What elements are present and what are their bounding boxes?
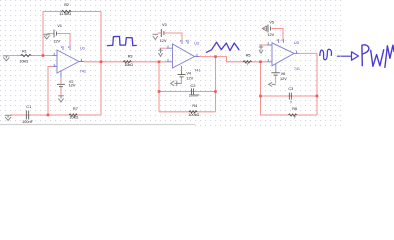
resistor R6 zigzag [288, 114, 296, 116]
svg-text:10kΩ: 10kΩ [19, 59, 28, 63]
wire vertical x101 output feedback [100, 12, 102, 116]
wire U1 output to U2 input [84, 61, 167, 63]
svg-text:R6: R6 [292, 107, 297, 111]
wire R4 branch [159, 111, 216, 113]
node C2 left junction [158, 90, 161, 93]
svg-text:C1: C1 [26, 105, 31, 109]
resistor R4 zigzag [189, 111, 197, 113]
pin tick U1 top pins [61, 46, 63, 48]
pin tick U1 out [81, 59, 83, 62]
wire U1 power pin to V2 [60, 77, 62, 84]
svg-text:11.5kΩ: 11.5kΩ [59, 12, 71, 16]
svg-text:?: ? [290, 101, 292, 105]
svg-text:12V: 12V [186, 76, 193, 80]
wire U1 inverting input down to rail [48, 67, 53, 116]
wire R1 to U1 noninverting input [10, 55, 53, 57]
svg-text:U1: U1 [80, 46, 86, 51]
annotation square wave [108, 36, 137, 45]
battery V2 [57, 84, 65, 86]
svg-text:10kΩ: 10kΩ [124, 63, 133, 67]
ground at U2 + input [158, 48, 162, 56]
node U2 inverting input junction [158, 61, 161, 64]
ground at V3 [153, 34, 159, 39]
pin tick U2 top pins [180, 40, 182, 42]
wire U3 noninverting gnd [259, 44, 267, 46]
ground at U3 + input [259, 45, 263, 53]
grid dots [0, 0, 344, 124]
pin tick U1 in+ [53, 53, 55, 55]
pin tick U3 in- [267, 59, 269, 62]
node C2 right junction [214, 90, 217, 93]
op-amp U1 741 [53, 46, 85, 78]
ground at R1 left [3, 56, 10, 61]
wire V3 to U2 power [164, 33, 182, 40]
battery V3 [161, 29, 164, 37]
svg-text:V6: V6 [281, 72, 286, 76]
op-amp labels [80, 40, 300, 74]
resistor R1 zigzag [21, 54, 32, 56]
resistor R3 zigzag [123, 61, 131, 63]
svg-text:12V: 12V [160, 39, 167, 43]
pin tick U1 in- [53, 64, 55, 66]
op-amp U3 741 [267, 39, 299, 73]
wire U2 output to R5 to U3 input [200, 57, 268, 62]
wire V5 gnd stub [263, 28, 267, 30]
wire U2 noninverting gnd [160, 47, 167, 49]
ground at C1 left [5, 115, 12, 120]
svg-text:R5: R5 [246, 54, 251, 58]
wire C2 branch [159, 91, 216, 93]
node C3 right junction [316, 95, 319, 98]
svg-text:741: 741 [194, 69, 200, 73]
pin number ticks (blue) [54, 39, 296, 66]
svg-text:U2: U2 [194, 41, 200, 46]
annotation sine wave [320, 49, 332, 60]
svg-text:R7: R7 [73, 107, 78, 111]
svg-text:V1: V1 [57, 24, 62, 28]
svg-text:U3: U3 [294, 40, 300, 45]
svg-text:100kΩ: 100kΩ [188, 113, 199, 117]
battery V1 [54, 30, 57, 38]
wire V3 gnd stub [158, 32, 161, 34]
pin tick U2 out [196, 54, 198, 57]
svg-text:12V: 12V [280, 77, 287, 81]
node C1 inverting input junction [47, 114, 50, 117]
node U2 output junction [214, 55, 217, 58]
battery V4 [178, 73, 186, 77]
svg-text:R1: R1 [22, 49, 27, 53]
node R1/R2 divider junction [42, 54, 45, 57]
wire vertical x43 divider node [42, 12, 44, 56]
svg-text:V4: V4 [186, 71, 191, 75]
svg-text:R2: R2 [64, 3, 69, 7]
svg-text:741: 741 [80, 70, 86, 74]
svg-text:10kΩ: 10kΩ [69, 116, 78, 120]
capacitor C3 plates [289, 93, 291, 100]
svg-text:12V: 12V [53, 40, 60, 44]
wire V1 to U1 power [57, 34, 70, 47]
battery V6 [271, 73, 279, 75]
wire R2 top feedback [43, 11, 101, 13]
capacitor C1 plates [26, 111, 28, 120]
ground at V1 [43, 34, 50, 39]
wire bottom ground rail section1 [10, 114, 101, 116]
svg-text:V5: V5 [269, 21, 274, 25]
svg-text:?: ? [246, 63, 248, 67]
pin tick U3 out [295, 51, 297, 54]
battery V5 [268, 25, 271, 33]
svg-text:?: ? [294, 115, 296, 119]
wire U3 feedback right vertical [316, 53, 318, 115]
wire U3 feedback left vertical [260, 62, 262, 115]
resistor R5 zigzag [243, 61, 252, 63]
svg-text:12V: 12V [69, 84, 76, 88]
wire U3 output [299, 52, 317, 54]
ground at V5 [262, 26, 266, 32]
svg-text:R4: R4 [192, 104, 197, 108]
capacitor C2 plates [192, 88, 194, 94]
svg-text:741: 741 [294, 67, 300, 71]
annotation PWM text [362, 45, 394, 67]
svg-text:200nF: 200nF [189, 93, 200, 97]
resistor R2 zigzag [61, 10, 71, 12]
ground at V6 [269, 82, 276, 86]
wire V4 to ground arrow [181, 77, 183, 83]
pin tick U2 in+ [167, 45, 169, 48]
pin tick U3 in+ [267, 42, 269, 45]
annotation triangle wave [207, 42, 240, 52]
svg-text:12V: 12V [267, 33, 274, 37]
wire U2 feedback left vertical [158, 62, 160, 112]
node U3 inverting input junction [259, 61, 262, 64]
wire R6 branch [261, 114, 318, 116]
node U1 output junction [100, 61, 103, 64]
svg-text:R3: R3 [128, 55, 133, 59]
resistor R7 zigzag [69, 114, 77, 116]
canvas bottom edge line [0, 124, 195, 126]
svg-text:V3: V3 [162, 23, 167, 27]
pin tick U2 in- [167, 59, 169, 62]
svg-text:C3: C3 [288, 87, 293, 91]
annotation arrow [338, 52, 359, 60]
wire V2 to ground arrow [60, 87, 62, 96]
svg-text:C2: C2 [191, 84, 196, 88]
ground at V4 [171, 81, 182, 87]
pin tick U3 top pins [276, 39, 278, 41]
wire C3 branch [261, 95, 318, 97]
wire V6 to ground arrow [275, 75, 277, 83]
svg-text:100nF: 100nF [22, 120, 33, 124]
node C3 left junction [259, 95, 262, 98]
wire U2 feedback right vertical [215, 57, 217, 112]
wire V5 to U3 power [272, 29, 284, 40]
wire V1 gnd stub [48, 33, 54, 35]
ground at V2 [58, 96, 64, 102]
op-amp U2 741 [167, 40, 200, 73]
